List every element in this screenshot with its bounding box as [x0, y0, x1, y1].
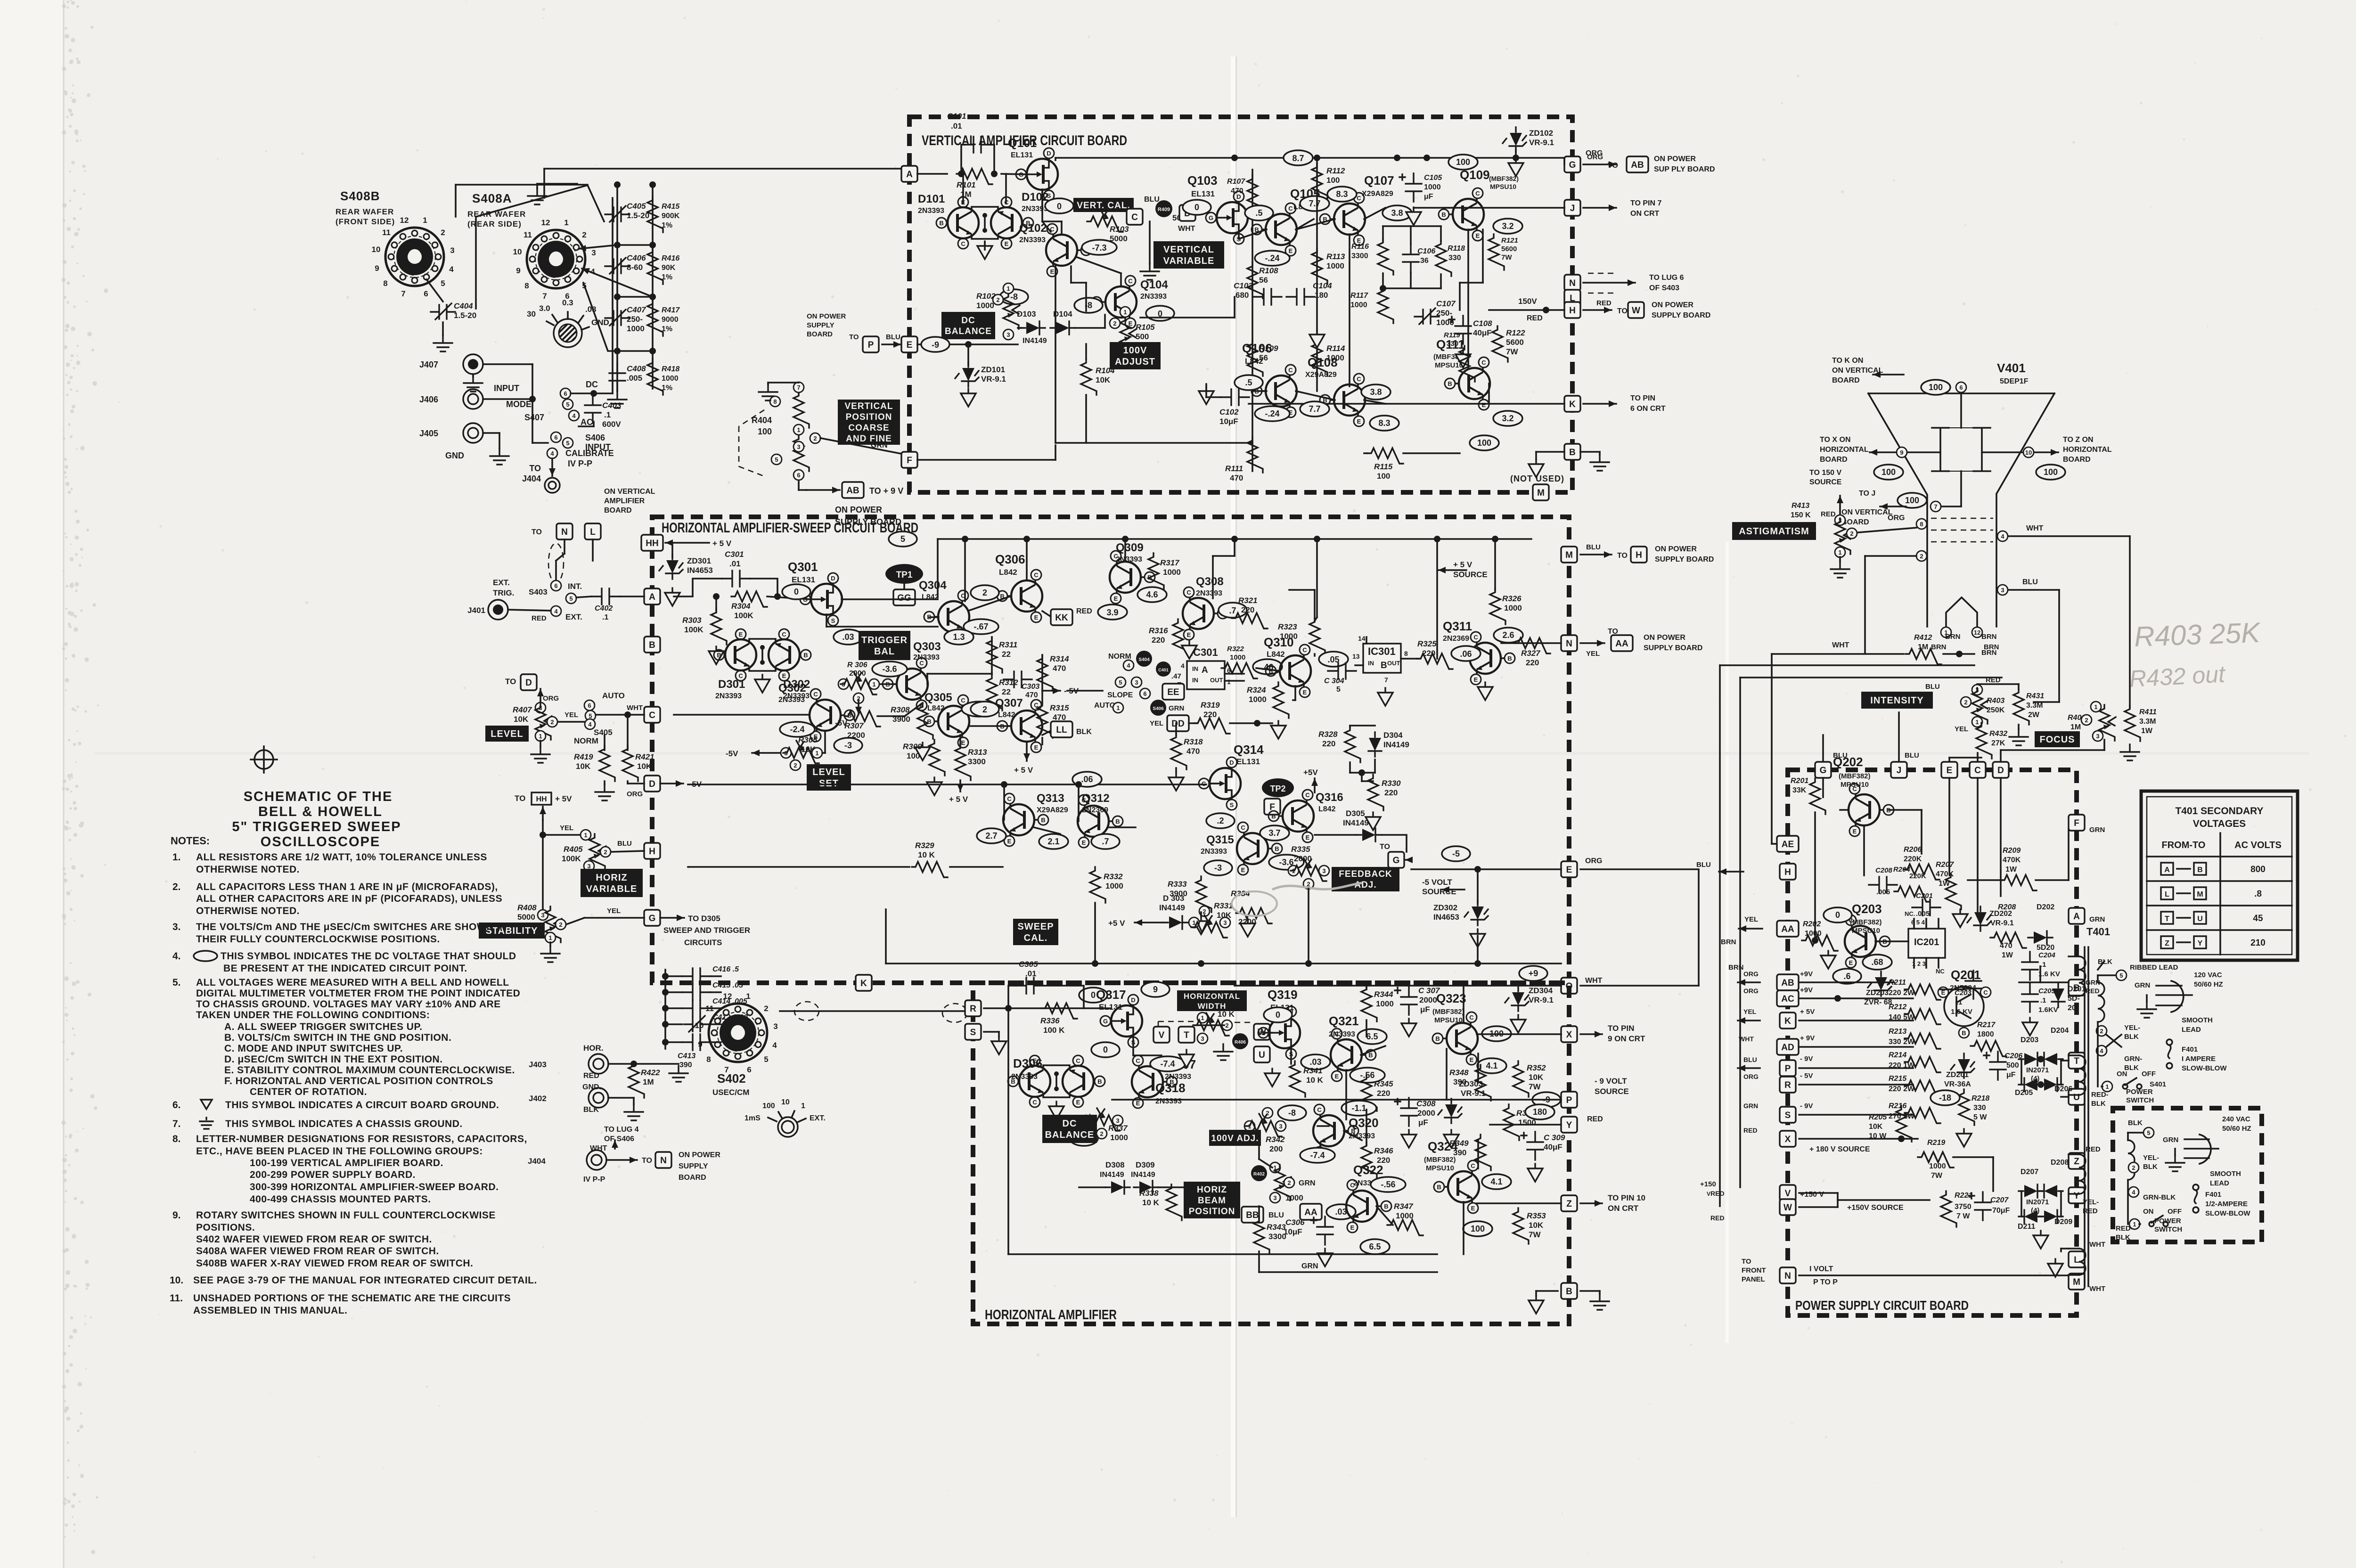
- svg-text:IC201: IC201: [1914, 937, 1939, 947]
- svg-text:1000: 1000: [1105, 882, 1123, 890]
- svg-text:180: 180: [1533, 1107, 1547, 1117]
- terminal AC: [1777, 990, 1799, 1006]
- svg-text:D309: D309: [1136, 1160, 1155, 1169]
- svg-text:C306: C306: [1285, 1218, 1305, 1227]
- svg-text:ON VERTICAL: ON VERTICAL: [1832, 367, 1883, 375]
- terminal B: [1564, 444, 1580, 460]
- svg-text:Z: Z: [2074, 1157, 2079, 1167]
- wire color labels left: [1738, 981, 1760, 983]
- label LEVEL: [485, 726, 529, 742]
- capacitor C406: [605, 259, 630, 273]
- svg-text:RED: RED: [583, 1072, 599, 1080]
- svg-text:2: 2: [794, 762, 797, 769]
- svg-text:1: 1: [1006, 285, 1010, 292]
- svg-text:.1: .1: [604, 410, 611, 419]
- resistor R319: [1189, 722, 1197, 724]
- resistor R411: [2125, 705, 2140, 741]
- capacitor C304: [1328, 663, 1356, 679]
- svg-text:ADJUST: ADJUST: [1115, 357, 1155, 367]
- svg-text:ON CRT: ON CRT: [1630, 210, 1660, 218]
- svg-text:A: A: [906, 170, 913, 180]
- dashed gang line: [739, 410, 764, 426]
- power switch S401: [2102, 1081, 2112, 1092]
- svg-text:-2.4: -2.4: [790, 725, 804, 734]
- svg-text:1000: 1000: [1110, 1133, 1128, 1142]
- svg-text:D206: D206: [2054, 1085, 2072, 1093]
- diode D201: [2052, 983, 2065, 1007]
- resistor R322: [1221, 663, 1257, 678]
- svg-text:2N3393: 2N3393: [715, 692, 742, 700]
- svg-text:7.: 7.: [172, 1119, 181, 1129]
- terminal B ground: [1536, 451, 1564, 453]
- svg-text:POSITION: POSITION: [1189, 1207, 1235, 1217]
- svg-text:YEL: YEL: [607, 907, 621, 915]
- svg-text:500: 500: [2006, 1062, 2019, 1070]
- svg-text:4.1: 4.1: [1490, 1177, 1502, 1186]
- svg-text:R: R: [1784, 1080, 1791, 1090]
- wire shielded: [564, 539, 565, 554]
- svg-text:Q321: Q321: [1329, 1014, 1359, 1028]
- svg-text:BLU: BLU: [1268, 1211, 1284, 1219]
- resistor R314: [1037, 655, 1053, 691]
- svg-text:R321: R321: [1238, 596, 1258, 605]
- svg-text:S408A: S408A: [472, 191, 512, 205]
- svg-text:R335: R335: [1291, 845, 1310, 854]
- svg-text:HORIZONTAL: HORIZONTAL: [2063, 446, 2112, 454]
- svg-text:+ 5 V: + 5 V: [1453, 560, 1472, 569]
- svg-text:.01: .01: [951, 122, 962, 131]
- svg-text:220: 220: [1322, 739, 1335, 748]
- svg-text:DC: DC: [1063, 1119, 1077, 1129]
- svg-text:8-60: 8-60: [627, 263, 643, 272]
- svg-text:100K: 100K: [734, 611, 753, 620]
- svg-text:1000: 1000: [1350, 301, 1367, 309]
- terminal AB: [1777, 974, 1799, 990]
- mains 120VAC winding: [2098, 982, 2104, 1022]
- svg-text:μF: μF: [2006, 1071, 2016, 1079]
- svg-text:C204: C204: [2038, 951, 2056, 959]
- pot R408: [538, 910, 548, 920]
- svg-text:Z: Z: [1566, 1199, 1572, 1209]
- svg-text:R403: R403: [1987, 697, 2004, 705]
- svg-text:TO CHASSIS GROUND. VOLTAGES MA: TO CHASSIS GROUND. VOLTAGES MAY VARY ±10…: [196, 999, 501, 1010]
- resistor R101: [957, 169, 992, 184]
- svg-text:R104: R104: [1096, 366, 1115, 375]
- svg-text:D204: D204: [2051, 1027, 2069, 1035]
- svg-text:BLK: BLK: [2098, 958, 2112, 966]
- capacitor C407: [605, 311, 630, 325]
- svg-text:300-399 HORIZONTAL AMPLIF: 300-399 HORIZONTAL AMPLIFIER-SWEEP BOARD…: [250, 1182, 499, 1192]
- svg-text:VR-9.1: VR-9.1: [1529, 996, 1554, 1004]
- transistor Q104: [1091, 276, 1137, 328]
- svg-text:5.: 5.: [172, 977, 181, 988]
- svg-text:GND: GND: [445, 451, 464, 460]
- svg-text:50/60 HZ: 50/60 HZ: [2194, 980, 2223, 988]
- svg-text:ON POWER: ON POWER: [1654, 155, 1696, 163]
- ground ladder bottom: [608, 392, 627, 408]
- terminal K: [1564, 396, 1580, 412]
- svg-text:ASSEMBLED IN THIS MANUAL.: ASSEMBLED IN THIS MANUAL.: [193, 1305, 348, 1316]
- svg-text:MPSU10: MPSU10: [1435, 361, 1463, 369]
- svg-text:BOARD: BOARD: [2063, 456, 2091, 464]
- svg-text:2N3393: 2N3393: [1196, 589, 1222, 597]
- wire R314 to S404: [1041, 690, 1043, 692]
- label ASTIGMATISM: [1732, 522, 1816, 540]
- svg-text:100: 100: [1326, 176, 1340, 185]
- svg-text:TRIGGER: TRIGGER: [861, 635, 908, 645]
- svg-text:+9V: +9V: [1800, 970, 1813, 978]
- resistor R121: [1489, 234, 1504, 270]
- svg-text:ALL VOLTAGES WERE MEASURED WIT: ALL VOLTAGES WERE MEASURED WITH A BELL A…: [196, 977, 509, 988]
- svg-text:HORIZ: HORIZ: [596, 873, 627, 883]
- svg-text:1000: 1000: [1249, 695, 1267, 704]
- CRT pin 8 grid lines: [1931, 518, 1993, 519]
- svg-text:R313: R313: [968, 748, 987, 757]
- jack J404 target: [545, 478, 560, 493]
- svg-text:Q203: Q203: [1852, 902, 1882, 916]
- resistor R321: [1232, 613, 1268, 629]
- diode D306 D307: [1008, 1055, 1105, 1107]
- svg-text:R113: R113: [1326, 252, 1345, 261]
- wire N to AA: [1580, 642, 1604, 644]
- svg-text:100: 100: [1456, 157, 1470, 167]
- svg-text:IN4149: IN4149: [1343, 818, 1369, 827]
- svg-text:56: 56: [1259, 276, 1268, 285]
- ground: [1149, 221, 1151, 264]
- terminal J: [1891, 762, 1907, 778]
- svg-text:3: 3: [1135, 679, 1138, 686]
- svg-text:R303: R303: [682, 616, 702, 625]
- svg-text:IN4149: IN4149: [1383, 740, 1409, 749]
- svg-text:D103: D103: [1017, 310, 1036, 318]
- svg-text:-5V: -5V: [726, 749, 738, 758]
- svg-text:VR-9.1: VR-9.1: [1529, 138, 1554, 147]
- svg-text:LEVEL: LEVEL: [812, 767, 845, 777]
- svg-text:Q301: Q301: [788, 560, 818, 574]
- svg-text:C415 .05: C415 .05: [712, 981, 744, 989]
- svg-text:TO: TO: [515, 794, 525, 803]
- svg-text:AC VOLTS: AC VOLTS: [2234, 840, 2282, 850]
- IC301 section B: [1363, 644, 1401, 673]
- resistor R352: [1513, 1061, 1529, 1097]
- svg-text:OUT: OUT: [1387, 660, 1400, 667]
- svg-text:Q317: Q317: [1096, 988, 1126, 1002]
- svg-text:5 W: 5 W: [1973, 1113, 1987, 1121]
- terminal G: [644, 910, 660, 926]
- svg-text:R403 25K: R403 25K: [2134, 617, 2262, 653]
- svg-text:R332: R332: [1104, 872, 1123, 881]
- svg-text:(FRONT SIDE): (FRONT SIDE): [335, 217, 395, 226]
- svg-text:DD: DD: [1171, 719, 1184, 729]
- svg-text:SMOOTH: SMOOTH: [2210, 1170, 2241, 1178]
- svg-text:C407: C407: [627, 305, 646, 314]
- capacitor C403: [585, 395, 601, 423]
- svg-text:R214: R214: [1889, 1051, 1906, 1059]
- svg-text:210: 210: [2250, 938, 2266, 948]
- svg-text:S: S: [1785, 1111, 1791, 1120]
- svg-text:F: F: [907, 456, 912, 465]
- svg-text:THIS SYMBOL INDICATES A CIRCUI: THIS SYMBOL INDICATES A CIRCUIT BOARD GR…: [225, 1100, 499, 1111]
- svg-text:7: 7: [1384, 676, 1388, 684]
- svg-text:+150 V: +150 V: [1800, 1191, 1824, 1199]
- svg-text:SUPPLY: SUPPLY: [807, 321, 834, 329]
- svg-text:BLU: BLU: [1144, 196, 1160, 204]
- svg-text:+9: +9: [1529, 969, 1538, 978]
- terminal Y: [1561, 1117, 1577, 1133]
- svg-text:150 K: 150 K: [1791, 511, 1811, 519]
- svg-text:5600: 5600: [1506, 338, 1524, 347]
- svg-text:6: 6: [554, 434, 557, 441]
- terminal M: [1533, 484, 1549, 500]
- svg-text:3300: 3300: [1351, 252, 1368, 260]
- svg-text:1000: 1000: [1326, 261, 1344, 270]
- oval 0 q104: [1146, 306, 1174, 321]
- svg-text:SUPPLY BOARD: SUPPLY BOARD: [1655, 555, 1714, 563]
- svg-text:40μF: 40μF: [1544, 1143, 1562, 1151]
- svg-text:7: 7: [797, 384, 800, 391]
- svg-text:ETC., HAVE BEEN PLACED IN THE: ETC., HAVE BEEN PLACED IN THE FOLLOWING …: [196, 1146, 483, 1157]
- svg-text:0: 0: [1835, 910, 1840, 920]
- node junctions on ladder bus: [614, 181, 621, 188]
- svg-text:+9V: +9V: [1800, 986, 1813, 994]
- svg-text:J: J: [1897, 766, 1902, 776]
- diode D104: [1050, 321, 1075, 335]
- transistor Q313: [1003, 793, 1048, 846]
- svg-text:R216: R216: [1889, 1102, 1906, 1110]
- svg-text:1000: 1000: [1285, 1193, 1303, 1202]
- node 0 oval: [1045, 198, 1073, 213]
- svg-text:R416: R416: [662, 254, 679, 262]
- svg-text:3.2: 3.2: [1502, 414, 1513, 423]
- svg-text:150V: 150V: [1518, 297, 1537, 306]
- potentiometer R103: [1087, 216, 1123, 232]
- resistor R315: [1037, 702, 1053, 738]
- svg-text:2: 2: [1203, 908, 1206, 915]
- svg-text:Q308: Q308: [1196, 575, 1224, 588]
- wire D to -5V: [660, 783, 683, 784]
- svg-text:M: M: [1565, 550, 1573, 560]
- svg-text:1.5-20: 1.5-20: [627, 211, 649, 220]
- transistor Q302: [810, 689, 855, 742]
- pencil scribble: [1272, 883, 1362, 890]
- svg-text:YEL: YEL: [560, 824, 573, 832]
- transistor Q301: [800, 573, 842, 626]
- resistor R312: [987, 675, 1002, 710]
- svg-text:USEC/CM: USEC/CM: [712, 1088, 749, 1097]
- svg-text:D: D: [649, 779, 655, 789]
- svg-text:3.7: 3.7: [1268, 828, 1280, 838]
- transistor Q323: [1432, 1012, 1478, 1065]
- svg-text:100 K: 100 K: [1043, 1026, 1065, 1035]
- svg-text:L842: L842: [1318, 805, 1336, 813]
- terminal Q: [1561, 978, 1577, 994]
- svg-text:C105: C105: [1424, 174, 1442, 182]
- resistor R317: [1148, 553, 1164, 589]
- svg-text:220: 220: [1152, 636, 1165, 645]
- wire to pin 7: [1583, 207, 1616, 209]
- resistor R119: [1459, 346, 1475, 382]
- wire Q310 net: [1256, 668, 1280, 671]
- svg-text:E: E: [1947, 766, 1953, 776]
- svg-text:2: 2: [1113, 320, 1116, 327]
- svg-text:TO X ON: TO X ON: [1820, 436, 1851, 444]
- svg-text:3.0: 3.0: [539, 304, 550, 313]
- svg-text:BOARD: BOARD: [679, 1174, 706, 1182]
- svg-text:SLOPE: SLOPE: [1107, 691, 1133, 699]
- resistor R419: [604, 735, 605, 750]
- svg-text:H: H: [1569, 306, 1576, 316]
- svg-text:D211: D211: [2018, 1223, 2035, 1231]
- svg-text:GRN-: GRN-: [2124, 1055, 2142, 1063]
- resistor R111: [1247, 437, 1263, 473]
- svg-text:ZD102: ZD102: [1529, 129, 1553, 138]
- svg-text:F: F: [2074, 818, 2079, 828]
- svg-text:0.3: 0.3: [562, 298, 573, 307]
- ground C404: [434, 335, 452, 351]
- svg-text:NC.: NC.: [1905, 910, 1915, 917]
- IC201: [1908, 929, 1945, 958]
- svg-text:-3: -3: [844, 741, 852, 750]
- wire: [1041, 189, 1043, 221]
- capacitor C401: [1156, 661, 1171, 677]
- svg-text:4: 4: [2001, 533, 2004, 540]
- svg-text:10 K: 10 K: [1218, 1010, 1235, 1019]
- resistor R324: [1273, 682, 1289, 718]
- svg-text:T: T: [2074, 1056, 2079, 1066]
- svg-text:J407: J407: [419, 360, 438, 369]
- svg-text:AC: AC: [581, 417, 593, 427]
- svg-text:D203: D203: [2021, 1036, 2038, 1044]
- svg-text:1mS: 1mS: [744, 1114, 761, 1122]
- svg-text:1: 1: [1838, 549, 1841, 556]
- svg-text:220K: 220K: [1909, 872, 1926, 880]
- wire: [1383, 225, 1441, 227]
- svg-text:Q104: Q104: [1140, 278, 1168, 291]
- wire GRN to F: [821, 438, 901, 454]
- svg-text:R119: R119: [1444, 331, 1460, 339]
- svg-text:TO D305: TO D305: [688, 914, 720, 923]
- svg-text:2: 2: [1287, 1179, 1291, 1186]
- svg-text:3: 3: [1201, 1035, 1204, 1042]
- svg-text:.005: .005: [1876, 888, 1890, 896]
- vertical amplifier circuit board outline: [909, 117, 1572, 492]
- transistor Q107: [1320, 193, 1365, 245]
- svg-text:D201: D201: [2068, 985, 2086, 993]
- svg-text:(MBF382): (MBF382): [1839, 772, 1871, 780]
- jack J406: [463, 389, 483, 409]
- ground: [1205, 386, 1207, 391]
- svg-text:RED: RED: [1986, 676, 2001, 684]
- table row A-B: [2161, 863, 2173, 875]
- transistor Q201: [1944, 987, 1984, 1026]
- resistor R332: [1090, 867, 1105, 903]
- svg-text:HORIZONTAL AMPLIFIER-SWEEP CIR: HORIZONTAL AMPLIFIER-SWEEP CIRCUIT BOARD: [662, 520, 918, 536]
- svg-text:RED: RED: [1710, 1214, 1725, 1222]
- svg-text:330: 330: [1448, 254, 1461, 262]
- svg-text:.03: .03: [842, 632, 854, 642]
- svg-text:2: 2: [2100, 1028, 2103, 1035]
- svg-text:OUT: OUT: [1210, 677, 1223, 684]
- H bus: [1489, 309, 1564, 311]
- wire column 2: [1316, 158, 1318, 377]
- svg-text:R432: R432: [1989, 730, 2007, 738]
- svg-text:S406: S406: [585, 433, 605, 442]
- svg-text:330: 330: [1973, 1104, 1986, 1112]
- svg-text:Q311: Q311: [1443, 619, 1472, 633]
- svg-text:AC: AC: [1781, 994, 1794, 1004]
- svg-text:7W: 7W: [1931, 1172, 1943, 1180]
- svg-text:R115: R115: [1374, 462, 1393, 471]
- svg-text:J404: J404: [528, 1157, 546, 1166]
- resistor R307: [844, 711, 880, 727]
- svg-text:2000: 2000: [849, 670, 866, 678]
- -5 volt source: [1442, 889, 1464, 890]
- svg-text:Q101: Q101: [1008, 137, 1037, 150]
- svg-text:D301: D301: [718, 678, 745, 691]
- svg-text:TO K ON: TO K ON: [1832, 357, 1863, 365]
- svg-text:F401: F401: [2182, 1045, 2198, 1053]
- terminal AA: [1777, 921, 1799, 937]
- svg-text:S406: S406: [1153, 706, 1164, 711]
- svg-text:250-: 250-: [627, 315, 643, 324]
- svg-text:V: V: [1785, 1189, 1791, 1199]
- svg-text:Q320: Q320: [1349, 1116, 1379, 1130]
- svg-text:R212: R212: [1889, 1003, 1906, 1011]
- svg-text:1000: 1000: [1929, 1162, 1946, 1170]
- svg-text:BOARD: BOARD: [1832, 376, 1860, 384]
- terminal B: [2069, 980, 2085, 996]
- resistor R346: [1361, 1142, 1377, 1178]
- svg-text:R422: R422: [641, 1068, 660, 1077]
- resistor R431: [2013, 689, 2029, 725]
- resistor R117: [1378, 287, 1393, 323]
- svg-text:R208: R208: [1998, 903, 2016, 911]
- rotary switch S402: [695, 992, 778, 1074]
- svg-text:+ 5 V: + 5 V: [712, 539, 732, 548]
- svg-text:OSCILLOSCOPE: OSCILLOSCOPE: [261, 834, 380, 849]
- svg-text:TRIG.: TRIG.: [493, 588, 514, 597]
- svg-text:C101: C101: [947, 112, 966, 121]
- svg-text:M: M: [1537, 488, 1545, 498]
- resistor R218: [1959, 1089, 1974, 1125]
- svg-text:ZD203: ZD203: [1866, 989, 1889, 997]
- svg-text:WHT: WHT: [1178, 225, 1195, 233]
- svg-text:IN4149: IN4149: [1159, 903, 1185, 912]
- oval -7.3: [1082, 240, 1117, 255]
- svg-text:3: 3: [1322, 867, 1325, 874]
- svg-text:1000: 1000: [1280, 632, 1298, 641]
- svg-text:C207: C207: [1990, 1196, 2009, 1204]
- vertical feeder wires: [1720, 664, 1974, 666]
- svg-text:C: C: [1131, 212, 1138, 222]
- svg-text:C208: C208: [1875, 866, 1893, 874]
- svg-text:470K: 470K: [2003, 856, 2021, 864]
- svg-text:200: 200: [1269, 1144, 1283, 1153]
- svg-text:.8: .8: [2254, 889, 2262, 899]
- jack J401: [488, 600, 508, 620]
- svg-text:ALL CAPACITORS LESS THAN 1 ARE: ALL CAPACITORS LESS THAN 1 ARE IN μF (MI…: [196, 882, 498, 892]
- svg-text:C301: C301: [725, 550, 744, 559]
- resistor R114: [1312, 340, 1327, 376]
- svg-text:B: B: [1566, 1287, 1572, 1297]
- svg-text:5600: 5600: [1501, 245, 1517, 253]
- svg-text:Q305: Q305: [924, 691, 952, 704]
- svg-text:C403: C403: [602, 401, 622, 410]
- ground: [540, 741, 541, 747]
- svg-text:D209: D209: [2054, 1218, 2072, 1226]
- svg-text:220: 220: [1384, 788, 1398, 797]
- svg-text:R432 out: R432 out: [2129, 661, 2227, 692]
